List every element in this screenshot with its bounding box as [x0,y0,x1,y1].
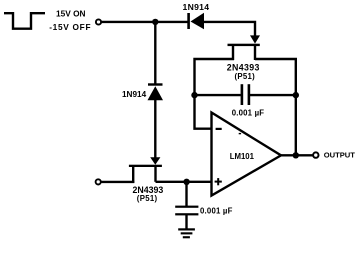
label 1N914 (D2) [122,90,147,99]
label 2N4393 (Q1) [227,63,260,73]
label 0.001 uF (C1) [232,108,265,117]
wire: feedback box top-right rail [255,59,296,95]
transistor Q1 channel bar [228,44,260,46]
label -15V OFF [49,22,91,32]
ground [178,228,195,238]
transistor Q2 source lead (left) [132,166,134,183]
svg-text:(P51): (P51) [137,194,158,203]
transistor Q1 source lead (left) [232,45,234,60]
label 2N4393 (Q2) [133,185,164,195]
transistor Q2 drain lead (right) [154,166,156,182]
node: junction top wire / left branch [152,19,158,25]
op-amp U1 LM101 triangle [212,113,282,196]
svg-text:(P51): (P51) [235,72,256,81]
svg-text:-15V OFF: -15V OFF [49,22,91,32]
output terminal [313,152,318,157]
svg-text:15V ON: 15V ON [56,9,86,19]
label OUTPUT [324,150,356,159]
wire: diode D1 to corner, down to Q1 gate [204,22,255,36]
wire: cap rail right [250,94,296,96]
wire: junction down to capacitor C2 [185,182,187,207]
svg-text:0.001 µF: 0.001 µF [200,207,233,216]
svg-text:0.001 µF: 0.001 µF [232,108,265,117]
diode D1 1N914 (horizontal, pointing left) [187,13,204,29]
node: left capacitor rail junction [191,92,197,98]
svg-text:1N914: 1N914 [183,2,210,12]
wire: Q2 drain to op-amp plus input [156,181,213,183]
input pulse waveform [4,13,45,29]
wire: op-amp output to output terminal [280,154,313,156]
wire: input terminal to diode D1 [101,21,188,23]
svg-text:1N914: 1N914 [122,90,147,99]
label LM101 [230,152,255,161]
svg-text:LM101: LM101 [230,152,255,161]
label (P51) (Q1) [235,72,256,81]
tick mark on op-amp hypotenuse [239,133,241,134]
diode D2 1N914 (vertical, pointing up) [148,83,164,100]
transistor Q2 channel bar [129,165,162,167]
node: plus input junction [183,179,189,185]
wire: junction down to diode D2 [154,22,156,84]
capacitor C1 0.001uF plates [241,84,251,105]
op-amp plus input sign [215,178,222,185]
wire: feedback box top-left rail [195,59,235,95]
label (P51) (Q2) [137,194,158,203]
input terminal (signal input) [96,179,101,184]
transistor Q2 2N4393 gate arrow [150,157,160,165]
label 1N914 (D1) [183,2,210,12]
node: output junction [293,152,299,158]
transistor Q1 2N4393 gate arrow [250,35,260,43]
wire: signal input terminal to Q2 source [101,181,134,183]
wire: box right side down to output node [295,95,297,155]
input terminal (pulse input) [96,19,101,24]
wire: diode D2 down to Q2 gate [154,99,156,158]
label 0.001 uF (C2) [200,207,233,216]
transistor Q1 drain lead (right) [254,45,256,60]
capacitor C2 0.001uF plates [175,206,198,216]
node: right capacitor rail junction [293,92,299,98]
wire: capacitor C2 to ground [185,215,187,230]
wire: cap rail left [195,94,241,96]
op-amp minus input sign [216,128,222,130]
svg-text:OUTPUT: OUTPUT [324,150,356,159]
wire: box left side down to op-amp minus input [195,95,213,129]
label 15V ON [56,9,86,19]
